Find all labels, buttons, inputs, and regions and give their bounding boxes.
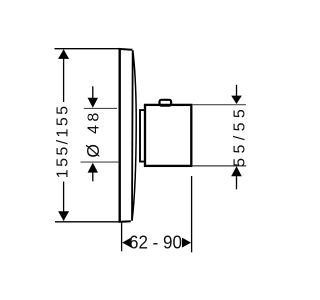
svg-text:48: 48 — [86, 109, 103, 134]
escutcheon plate left edge — [118, 48, 120, 222]
dim Ø48 bottom extension line — [81, 161, 119, 163]
sleeve collar — [140, 110, 146, 162]
dim Ø48 arrow down — [88, 98, 98, 108]
escutcheon plate top edge — [119, 48, 133, 51]
dim 55/55 bottom extension line — [192, 165, 246, 167]
dim 62-90 right extension line — [191, 176, 193, 252]
dim Ø48 upper shaft — [92, 86, 94, 99]
escutcheon plate domed face contour — [132, 51, 136, 221]
dim 155/155 line upper segment — [63, 50, 65, 102]
dim 62-90 arrow right — [182, 238, 191, 248]
dim Ø48 label — [83, 109, 103, 157]
dim 155/155 arrow down — [58, 211, 69, 221]
dim 155/155 bottom extension line — [55, 221, 119, 223]
dim 155/155 arrow up — [58, 49, 69, 59]
dim 62-90 arrow left — [122, 237, 131, 247]
dim 55/55 upper shaft — [236, 85, 238, 97]
svg-text:Ø: Ø — [83, 144, 103, 158]
dim 155/155 label — [55, 104, 72, 179]
button on handle — [160, 100, 172, 106]
dim Ø48 top extension line — [84, 107, 117, 109]
handle block — [145, 105, 191, 166]
dim 55/55 arrow down — [231, 96, 242, 104]
svg-text:62 - 90: 62 - 90 — [129, 232, 182, 252]
dim 55/55 top extension line — [192, 104, 246, 106]
svg-text:155/155: 155/155 — [55, 104, 72, 179]
escutcheon plate inner right edge — [131, 50, 134, 221]
dim 55/55 label — [232, 105, 249, 167]
dim 155/155 top extension line — [55, 48, 120, 50]
dim Ø48 arrow up — [88, 163, 98, 173]
dim 155/155 line lower segment — [63, 182, 65, 221]
dim 55/55 lower shaft — [236, 176, 238, 189]
dim 55/55 arrow up — [231, 166, 242, 176]
escutcheon plate bottom edge — [119, 220, 131, 223]
svg-text:55/55: 55/55 — [232, 105, 249, 167]
dim 62-90 label — [129, 232, 182, 252]
dim 62-90 left extension line — [121, 223, 123, 252]
dim Ø48 lower shaft — [92, 172, 94, 181]
